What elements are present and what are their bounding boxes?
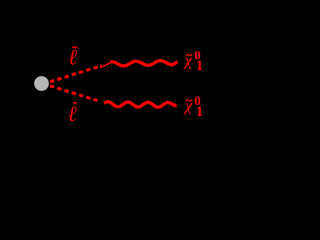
- anti-slepton line (lower, dashed): [50, 86, 98, 101]
- tilde over upper ell: [72, 47, 77, 49]
- tilde over upper chi: [186, 54, 192, 56]
- svg-text:1: 1: [196, 104, 204, 120]
- lepton line cut (lower, black over wave): [100, 102, 108, 108]
- bar over lower ell: [73, 102, 77, 104]
- svg-text:χ: χ: [183, 50, 193, 69]
- neutralino wave (lower): [104, 102, 176, 107]
- svg-text:1: 1: [196, 58, 204, 74]
- neutralino wave (upper): [100, 61, 178, 67]
- tilde over lower chi: [186, 100, 192, 102]
- svg-text:χ: χ: [183, 96, 193, 115]
- svg-text:ℓ: ℓ: [68, 101, 78, 126]
- production vertex blob: [34, 76, 49, 91]
- stray red dot in lower gap: [103, 104, 105, 106]
- slepton line (upper, dashed): [50, 66, 100, 82]
- lepton line cut (upper, black over wave): [102, 61, 111, 65]
